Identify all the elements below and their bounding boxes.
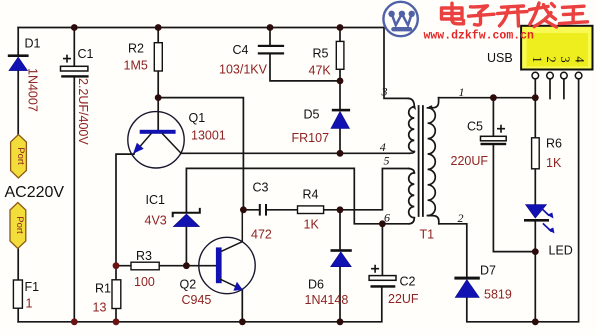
junction Q1 base R2: [155, 94, 162, 101]
diode D5: [331, 109, 350, 129]
svg-text:472: 472: [251, 228, 272, 242]
junction top rail R2: [155, 24, 162, 31]
USB pin1 circle: [532, 72, 539, 79]
svg-text:C4: C4: [233, 43, 249, 57]
junction emitter R3 R1: [113, 262, 120, 269]
junction secondary rail LED: [532, 318, 539, 325]
logo title dianzi kaifa wang: [442, 3, 588, 27]
wire left AC line vertical: [17, 28, 19, 135]
wire Q2 emitter to bottom rail: [241, 290, 243, 322]
wire transformer pin1 to USB rail: [439, 97, 536, 99]
svg-text:1K: 1K: [304, 218, 320, 232]
svg-text:3: 3: [558, 56, 572, 62]
resistor R6: [532, 138, 540, 169]
svg-text:R2: R2: [128, 42, 144, 56]
svg-text:Q2: Q2: [180, 278, 197, 292]
wire F1 to bottom rail: [17, 308, 19, 322]
wire transformer pin2 to D7: [439, 224, 467, 277]
transistor Q2: [199, 237, 255, 293]
svg-text:Port: Port: [14, 216, 25, 234]
capacitor C4: [258, 45, 284, 55]
wire C4 lead top: [269, 28, 271, 46]
svg-text:R1: R1: [95, 282, 111, 296]
junction bottom rail R1: [113, 318, 120, 325]
USB pin4 circle: [575, 72, 582, 79]
junction R5 C4 D5: [337, 78, 344, 85]
LED: [524, 205, 555, 234]
svg-text:220UF: 220UF: [451, 154, 489, 168]
svg-text:C1: C1: [78, 47, 94, 61]
wire zener IC1 to pin6 net: [186, 168, 408, 223]
diode D1: [8, 54, 29, 70]
USB pin3 circle: [561, 72, 568, 79]
svg-text:22UF: 22UF: [388, 292, 419, 306]
capacitor C5: [481, 126, 507, 146]
transistor Q1: [128, 112, 184, 168]
svg-text:1M5: 1M5: [124, 59, 148, 73]
wire C4 bottom to R5 bottom: [270, 55, 340, 81]
svg-text:47K: 47K: [309, 64, 332, 78]
capacitor C2: [369, 266, 396, 288]
svg-text:C3: C3: [253, 181, 269, 195]
svg-text:100: 100: [134, 275, 155, 289]
svg-text:4: 4: [572, 56, 586, 63]
wire R1 to bottom rail: [115, 309, 117, 322]
svg-text:1N4007: 1N4007: [26, 68, 40, 112]
wire R5 leads: [339, 28, 341, 81]
zener IC1: [173, 209, 200, 227]
resistor R1: [112, 280, 121, 309]
wire port2 to fuse F1: [17, 249, 19, 281]
capacitor C3: [259, 204, 267, 216]
wire R2 leads: [157, 28, 159, 130]
junction bottom rail D6: [337, 318, 344, 325]
svg-text:6: 6: [384, 211, 390, 225]
junction bottom rail Q2 emitter: [239, 318, 246, 325]
svg-text:IC1: IC1: [146, 193, 166, 207]
svg-text:C2: C2: [400, 275, 416, 289]
svg-text:R4: R4: [303, 188, 319, 202]
svg-text:1: 1: [26, 297, 33, 311]
transformer T1: [384, 28, 439, 224]
svg-text:R5: R5: [313, 47, 329, 61]
junction R4 D6: [337, 206, 344, 213]
junction D5 collector wire: [337, 150, 344, 157]
junction C3 Q2 collector: [240, 206, 247, 213]
USB pin2 circle: [547, 72, 554, 79]
transformer phasing arrow left: [412, 105, 417, 110]
svg-text:2.2UF/400V: 2.2UF/400V: [76, 78, 90, 145]
USB connector J1: [521, 26, 592, 70]
svg-text:D6: D6: [308, 278, 324, 292]
svg-text:Q1: Q1: [189, 111, 206, 125]
logo W circle: [383, 2, 417, 36]
svg-text:1: 1: [459, 85, 465, 99]
svg-text:C5: C5: [467, 120, 483, 134]
svg-text:F1: F1: [25, 280, 40, 294]
junction LED cathode C5: [532, 248, 539, 255]
transformer phasing arrow right: [429, 105, 434, 110]
svg-text:LED: LED: [549, 244, 573, 258]
junction top rail C4: [267, 24, 274, 31]
svg-text:2: 2: [458, 211, 464, 225]
junction R3 zener Q2 base: [183, 262, 190, 269]
port AC input upper: [11, 135, 27, 179]
wire C2 top lead: [381, 224, 383, 276]
wire Q2 collector: [221, 210, 243, 252]
svg-text:13001: 13001: [191, 129, 226, 143]
svg-text:USB: USB: [487, 51, 513, 65]
diode D7: [454, 277, 479, 298]
junction pin6 C2: [379, 220, 386, 227]
svg-text:2: 2: [544, 56, 558, 62]
wire C3 leads: [243, 209, 297, 211]
junction top rail R5: [337, 24, 344, 31]
svg-text:T1: T1: [420, 228, 435, 242]
wire top rail: [18, 27, 384, 29]
svg-text:1N4148: 1N4148: [305, 293, 349, 307]
wire Q1 emitter down to R1: [116, 154, 134, 280]
svg-text:AC220V: AC220V: [5, 184, 65, 201]
port AC input lower: [10, 203, 26, 249]
svg-text:5: 5: [384, 154, 390, 168]
wire Q1 base to C3 node vertical: [158, 98, 243, 210]
svg-text:1: 1: [530, 56, 544, 62]
wire C5 leads: [493, 98, 535, 252]
junction top rail C1: [71, 24, 78, 31]
wire R6 leads and LED chain: [534, 79, 536, 322]
wire USB pin2 stub: [549, 79, 551, 99]
wire D5 leads: [339, 81, 341, 153]
svg-text:FR107: FR107: [292, 131, 330, 145]
svg-text:D1: D1: [25, 37, 41, 51]
svg-text:103/1KV: 103/1KV: [219, 63, 268, 77]
wire D6 leads: [339, 210, 341, 322]
svg-text:1K: 1K: [546, 156, 562, 170]
wire zener IC1 anode to Q2 base node: [185, 227, 187, 266]
svg-text:R6: R6: [546, 137, 562, 151]
svg-text:C945: C945: [182, 293, 212, 307]
capacitor C1: [61, 55, 89, 77]
resistor R3: [131, 262, 159, 270]
diode D6: [331, 249, 352, 267]
wire bottom rail primary: [18, 288, 382, 322]
svg-text:3: 3: [381, 85, 388, 99]
svg-text:D5: D5: [304, 108, 320, 122]
svg-text:D7: D7: [480, 264, 496, 278]
resistor R5: [336, 41, 344, 69]
wire C1 vertical: [73, 28, 75, 322]
svg-text:13: 13: [93, 301, 107, 315]
svg-text:4: 4: [380, 140, 386, 154]
wire Q1 collector to transformer pin4: [181, 152, 408, 154]
junction rail1 R6 USB pin1: [532, 94, 539, 101]
svg-text:Port: Port: [15, 147, 26, 165]
wire D7 to secondary rail: [467, 79, 579, 322]
svg-text:R3: R3: [136, 249, 152, 263]
junction rail1 C5: [490, 94, 497, 101]
svg-text:5819: 5819: [484, 288, 512, 302]
wire R4 right to pin5: [324, 169, 409, 210]
wire USB pin3 stub: [563, 79, 565, 99]
svg-text:www.dzkfw.com.cn: www.dzkfw.com.cn: [424, 30, 535, 43]
fuse F1: [13, 280, 22, 308]
svg-text:4V3: 4V3: [145, 214, 167, 228]
resistor R2: [154, 43, 162, 71]
resistor R4: [298, 206, 324, 214]
wire R3 leads: [116, 265, 217, 267]
junction bottom rail C1: [71, 318, 78, 325]
